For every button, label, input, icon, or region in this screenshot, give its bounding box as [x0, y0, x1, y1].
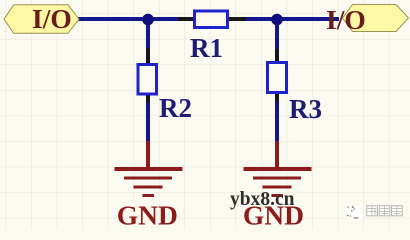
svg-text:I/O: I/O: [32, 3, 72, 34]
svg-text:R2: R2: [159, 93, 192, 123]
svg-text:R3: R3: [289, 94, 322, 124]
svg-text:I/O: I/O: [326, 4, 366, 35]
svg-text:R1: R1: [190, 33, 223, 63]
svg-text:GND: GND: [117, 200, 178, 231]
svg-text:ybx8.cn: ybx8.cn: [230, 189, 295, 210]
